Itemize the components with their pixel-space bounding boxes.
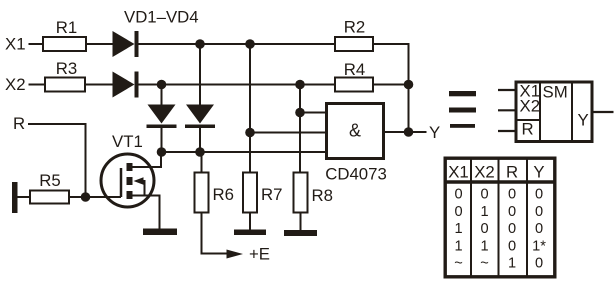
svg-text:Y: Y <box>533 163 544 182</box>
wire R5 to VT1 gate <box>70 196 121 198</box>
svg-text:VD1–VD4: VD1–VD4 <box>124 8 199 27</box>
wire VD4 cathode lead <box>199 127 201 152</box>
svg-text:0: 0 <box>508 221 516 237</box>
node junction gate input 2 <box>245 128 255 138</box>
svg-text:R: R <box>506 163 518 182</box>
svg-text:X2: X2 <box>520 97 541 116</box>
wire X1 rail down to R7 <box>249 44 251 172</box>
op-amp U1 AND-gate CD4073 body <box>327 104 384 159</box>
wire X2 rail down to R8 <box>299 85 301 172</box>
ground R7 <box>234 230 266 236</box>
svg-text:X2: X2 <box>5 75 26 94</box>
svg-text:R: R <box>522 120 534 139</box>
equivalence bus bar 2 <box>449 108 476 113</box>
svg-text:0: 0 <box>535 221 543 237</box>
svg-text:0: 0 <box>480 187 488 203</box>
resistor R4 <box>335 78 373 92</box>
node junction R/R5/gate <box>81 192 91 202</box>
ground VT1 source <box>143 229 177 236</box>
svg-text:R6: R6 <box>213 185 234 204</box>
node junction drain/VD3 <box>157 147 167 157</box>
wire drain rail to gate input 3 <box>162 151 326 153</box>
ground R8 <box>284 230 317 236</box>
svg-text:0: 0 <box>454 204 462 220</box>
svg-text:0: 0 <box>535 204 543 220</box>
resistor R3 <box>45 78 85 92</box>
wire R8 bottom lead <box>300 214 302 231</box>
svg-text:CD4073: CD4073 <box>325 165 387 184</box>
resistor R5 <box>30 191 69 204</box>
transistor VT1 <box>101 152 161 229</box>
resistor R6 <box>195 173 209 213</box>
svg-text:1: 1 <box>508 256 516 272</box>
svg-text:1*: 1* <box>532 238 546 254</box>
svg-text:R5: R5 <box>39 171 60 190</box>
wire R7 bottom lead <box>249 214 251 230</box>
svg-text:0: 0 <box>454 187 462 203</box>
wire R2 right to corner down to Y junction <box>374 44 409 132</box>
svg-text:R: R <box>13 114 25 133</box>
svg-text:~: ~ <box>480 256 489 272</box>
svg-text:0: 0 <box>508 238 516 254</box>
wire R6 top lead <box>201 152 203 172</box>
power +E arrowhead <box>227 250 244 259</box>
node junction drain/VD4/R6 <box>195 147 205 157</box>
node X2 lead wire <box>29 84 46 86</box>
resistor R8 <box>294 173 308 213</box>
truth table row 1 <box>454 187 543 203</box>
svg-text:R2: R2 <box>344 18 365 37</box>
SM block output Y lead <box>592 111 614 113</box>
wire R4 right to vertical <box>374 84 409 86</box>
node junction X2/VD3 <box>157 80 167 90</box>
equivalence bus bar 1 <box>449 91 476 96</box>
wire gate input 1 <box>300 112 325 114</box>
svg-text:R7: R7 <box>261 185 282 204</box>
svg-text:X1: X1 <box>5 35 26 54</box>
equivalence bus bar 3 <box>450 124 475 128</box>
svg-text:X2: X2 <box>474 163 495 182</box>
SM block pin X2 lead <box>498 109 516 111</box>
diode VD3 <box>147 105 177 129</box>
svg-text:Y: Y <box>578 111 589 130</box>
resistor R7 <box>243 173 257 213</box>
wire R3 to VD2 <box>86 84 114 86</box>
resistor R1 <box>43 37 86 51</box>
truth table row 5 <box>454 256 543 272</box>
SM block pin X1 lead <box>498 89 516 91</box>
wire VD2 cathode to R4 (X2 rail) <box>139 84 335 86</box>
diode VD4 <box>185 105 215 129</box>
wire VD4 anode lead <box>199 44 201 106</box>
node junction X1/VD4 <box>195 39 205 49</box>
svg-text:R8: R8 <box>312 186 333 205</box>
svg-text:0: 0 <box>480 221 488 237</box>
truth table row 3 <box>454 221 543 237</box>
svg-text:0: 0 <box>508 187 516 203</box>
diode VD2 <box>113 72 139 98</box>
svg-text:0: 0 <box>535 187 543 203</box>
svg-text:R4: R4 <box>344 60 365 79</box>
wire R6 bottom to +E arrow <box>202 214 228 254</box>
resistor R2 <box>335 37 373 51</box>
svg-text:R1: R1 <box>56 18 77 37</box>
wire gate input 2 <box>250 132 325 134</box>
wire VD3 cathode lead <box>161 127 163 152</box>
svg-text:1: 1 <box>480 204 488 220</box>
svg-text:+E: +E <box>249 245 270 264</box>
wire VD3 anode lead <box>161 85 163 106</box>
svg-text:~: ~ <box>454 256 463 272</box>
wire gate output to Y <box>385 131 427 133</box>
svg-text:&: & <box>349 121 361 141</box>
node junction X2/R8 branch <box>295 80 305 90</box>
plate terminal at R5 <box>12 182 18 213</box>
wire VD1 cathode to R2 (X1 rail) <box>139 43 335 45</box>
svg-text:SM: SM <box>543 83 568 102</box>
node X1 lead wire <box>29 43 44 45</box>
node R lead wire down to gate line <box>28 124 86 197</box>
svg-text:1: 1 <box>454 221 462 237</box>
truth table row 4 <box>454 238 546 254</box>
node junction R4/right vertical <box>404 80 414 90</box>
wire R1 to VD1 <box>87 43 114 45</box>
diode VD1 <box>113 31 139 57</box>
SM block pin R lead <box>498 130 516 132</box>
node junction X1/R7 branch <box>245 39 255 49</box>
svg-text:1: 1 <box>480 238 488 254</box>
wire plate to R5 <box>17 196 29 198</box>
truth table frame <box>444 157 557 278</box>
svg-text:Y: Y <box>429 123 440 142</box>
svg-text:0: 0 <box>508 204 516 220</box>
svg-text:X1: X1 <box>448 163 469 182</box>
svg-text:0: 0 <box>535 256 543 272</box>
node junction Y output <box>404 127 414 137</box>
node junction gate input 1 <box>295 108 305 118</box>
truth table row 2 <box>454 204 543 220</box>
svg-text:R3: R3 <box>56 59 77 78</box>
svg-text:1: 1 <box>454 238 462 254</box>
SM functional block body <box>516 82 592 142</box>
svg-text:VT1: VT1 <box>112 132 143 151</box>
